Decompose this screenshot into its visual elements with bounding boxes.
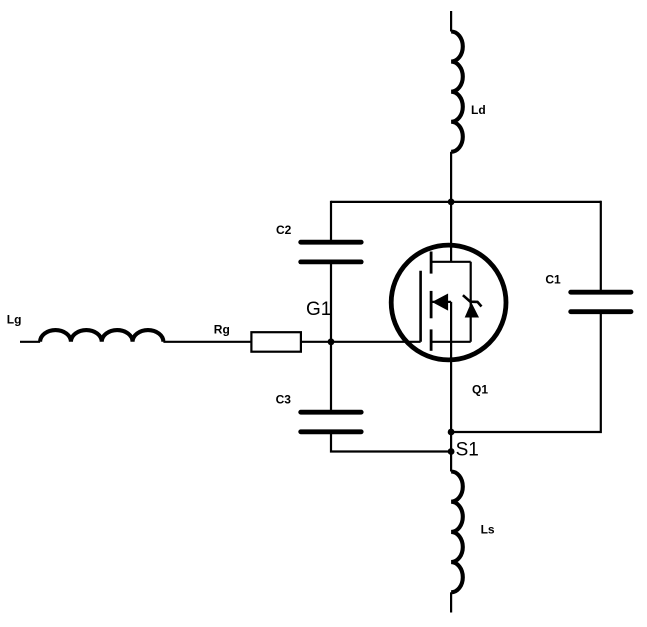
Q1 substrate arrow — [432, 294, 448, 311]
Q1 body diode triangle — [465, 302, 479, 317]
wire Lg to Rg — [163, 341, 251, 343]
node drain junction dot — [448, 199, 455, 206]
svg-text:Ld: Ld — [471, 103, 486, 117]
node S1 junction dot — [448, 448, 455, 455]
node C1 tee junction dot — [448, 429, 455, 436]
wire C3 bottom to S1 — [331, 432, 451, 452]
Q1 channel segment middle — [430, 291, 433, 318]
Q1 gate bar — [419, 271, 422, 342]
wire top rail to C1 — [600, 201, 602, 292]
svg-text:C1: C1 — [545, 272, 561, 286]
wire source lead down — [450, 342, 452, 472]
capacitor C3 — [301, 412, 362, 432]
svg-text:G1: G1 — [306, 299, 331, 320]
svg-text:Q1: Q1 — [472, 382, 488, 396]
capacitor C1 — [571, 292, 631, 312]
wire Rg to gate — [301, 341, 421, 343]
wire Ls bottom lead — [450, 592, 452, 612]
wire Lg left lead — [20, 341, 40, 343]
wire top drain lead — [450, 11, 452, 32]
Q1 channel segment top — [430, 252, 433, 274]
svg-text:C3: C3 — [276, 393, 292, 407]
Q1 body circle — [391, 245, 506, 360]
inductor Ld — [451, 32, 463, 152]
svg-text:Lg: Lg — [7, 313, 22, 327]
node G1 junction dot — [328, 338, 335, 345]
wire C1 bottom to source rail — [451, 312, 601, 432]
resistor Rg — [251, 332, 301, 352]
svg-text:C2: C2 — [276, 223, 292, 237]
Q1 source bar — [431, 341, 471, 343]
svg-text:Rg: Rg — [214, 323, 230, 337]
wire top rail — [331, 201, 601, 203]
inductor Lg — [40, 330, 163, 342]
transistor Q1 — [391, 245, 506, 360]
wire Ld to drain node — [450, 152, 452, 262]
Q1 channel segment bottom — [430, 329, 433, 350]
Q1 body vertical — [450, 302, 452, 342]
inductor Ls — [451, 472, 463, 593]
Q1 drain bar — [431, 261, 471, 263]
Q1 body diode rail — [470, 262, 472, 342]
Q1 body diode cathode — [463, 295, 482, 306]
svg-text:S1: S1 — [456, 439, 479, 460]
wire C2 to G1 to C3 — [330, 262, 332, 412]
svg-text:Ls: Ls — [481, 523, 495, 537]
capacitor C2 — [301, 242, 362, 262]
wire top rail to C2 — [330, 201, 332, 242]
Q1 body bar — [431, 301, 451, 303]
